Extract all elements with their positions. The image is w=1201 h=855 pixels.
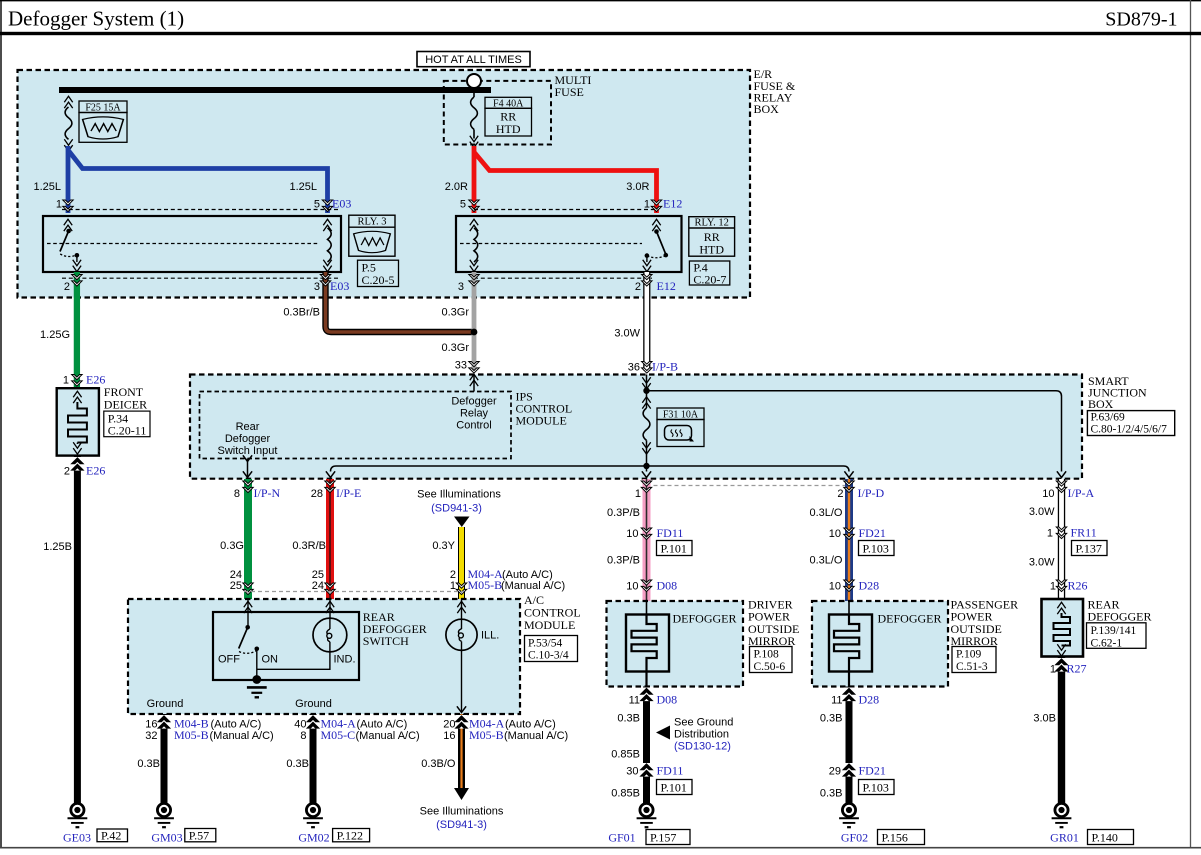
svg-text:DEFOGGER: DEFOGGER [1088, 610, 1152, 624]
svg-text:(SD941-3): (SD941-3) [436, 819, 487, 831]
svg-text:I/P-B: I/P-B [652, 360, 678, 374]
page border bottom [0, 847, 1201, 849]
fuse F25 15A [64, 96, 127, 151]
svg-text:DEFOGGER: DEFOGGER [673, 611, 737, 625]
svg-text:M05-B: M05-B [469, 728, 504, 742]
SMART JUNCTION BOX [190, 374, 1175, 479]
svg-text:30: 30 [626, 766, 638, 778]
PASSENGER POWER OUTSIDE MIRROR box [812, 597, 1018, 686]
svg-text:C.80-1/2/4/5/6/7: C.80-1/2/4/5/6/7 [1091, 424, 1168, 436]
connector M04/M05 pin rows [230, 567, 565, 592]
ground GM03 [151, 803, 215, 844]
svg-text:(SD130-12): (SD130-12) [674, 741, 731, 753]
svg-text:(Auto A/C): (Auto A/C) [211, 718, 262, 730]
svg-text:0.85B: 0.85B [611, 788, 640, 800]
svg-text:1.25L: 1.25L [289, 181, 317, 193]
svg-text:(SD941-3): (SD941-3) [431, 503, 482, 515]
page border left [0, 0, 2, 848]
ground GM02 [298, 803, 369, 844]
svg-text:P.122: P.122 [337, 828, 363, 842]
svg-text:3.0W: 3.0W [1029, 557, 1055, 569]
page border right [1190, 0, 1192, 848]
svg-text:F25 15A: F25 15A [85, 102, 121, 113]
fuse F31 10A [642, 391, 704, 466]
svg-text:R26: R26 [1068, 579, 1088, 593]
svg-text:2: 2 [64, 281, 70, 293]
svg-text:29: 29 [829, 766, 841, 778]
svg-text:MODULE: MODULE [516, 414, 567, 428]
svg-text:0.3L/O: 0.3L/O [809, 507, 842, 519]
svg-text:P.63/69: P.63/69 [1091, 412, 1125, 424]
REAR DEFOGGER SWITCH box [213, 610, 427, 697]
connector E03 dashed lines [62, 210, 340, 279]
svg-text:10: 10 [1042, 488, 1054, 500]
svg-text:Distribution: Distribution [674, 728, 729, 740]
wire 0.3B/O to illuminations [420, 714, 504, 831]
svg-text:C.20-7: C.20-7 [693, 273, 726, 287]
wire 3.0W to rear defogger [1029, 479, 1067, 599]
svg-text:C.20-5: C.20-5 [362, 273, 395, 287]
svg-text:Relay: Relay [460, 408, 489, 420]
SJB pin 10 I/P-A [1042, 486, 1094, 500]
fuse F4 40A [470, 88, 532, 148]
DRIVER POWER OUTSIDE MIRROR box [607, 597, 800, 686]
wire 3.0B rear [1033, 657, 1067, 805]
junction of Br/B and Gr [471, 329, 478, 336]
illumination lamp ILL [446, 619, 499, 712]
svg-text:3.0B: 3.0B [1033, 713, 1056, 725]
svg-text:HTD: HTD [496, 122, 521, 136]
wire 0.3P/B pink [607, 479, 652, 601]
connector D28 lower [831, 693, 879, 707]
wire 0.3B/0.85B driver [611, 687, 652, 805]
page border top [0, 0, 1201, 2]
svg-text:See Illuminations: See Illuminations [420, 806, 504, 818]
svg-text:BOX: BOX [1088, 397, 1114, 411]
svg-text:0.3P/B: 0.3P/B [607, 555, 640, 567]
svg-text:FR11: FR11 [1071, 526, 1097, 540]
defogger relay control line to pin 33 [470, 374, 478, 391]
relay RLY.12 label [689, 217, 735, 257]
A/C module entries [244, 599, 466, 620]
svg-text:P.103: P.103 [863, 541, 889, 555]
bus tap circle [467, 74, 481, 88]
relay 12 switch [652, 219, 660, 231]
svg-text:See Illuminations: See Illuminations [417, 489, 501, 501]
svg-text:(Manual A/C): (Manual A/C) [356, 730, 420, 742]
wire 0.3Y yellow [432, 527, 466, 599]
connector D28 upper [829, 579, 879, 593]
svg-text:0.3R/B: 0.3R/B [292, 540, 326, 552]
svg-text:0.3B: 0.3B [820, 713, 843, 725]
svg-text:E26: E26 [86, 464, 105, 478]
svg-text:FD21: FD21 [859, 764, 886, 778]
connector FD21 lower [829, 763, 894, 795]
wire 0.3B to GM02 [286, 714, 318, 804]
svg-text:0.3G: 0.3G [220, 540, 244, 552]
front deicer F25 load [57, 385, 150, 455]
A/C CONTROL MODULE box [128, 593, 581, 714]
svg-text:FD11: FD11 [657, 526, 684, 540]
svg-text:0.3B/O: 0.3B/O [421, 758, 456, 770]
svg-text:2: 2 [64, 466, 70, 478]
svg-text:IND.: IND. [334, 654, 356, 666]
svg-text:Ground: Ground [147, 698, 184, 710]
svg-text:F31 10A: F31 10A [663, 409, 699, 420]
svg-text:D08: D08 [657, 579, 678, 593]
A/C module exit pin rows [145, 716, 568, 742]
switch contacts [247, 612, 249, 627]
F31 output node [643, 463, 649, 469]
ground GR01 [1050, 803, 1133, 844]
svg-text:0.3B: 0.3B [286, 758, 309, 770]
svg-text:E03: E03 [330, 279, 349, 293]
svg-text:P.108: P.108 [754, 649, 779, 661]
svg-text:SWITCH: SWITCH [363, 634, 409, 648]
svg-text:0.3B: 0.3B [820, 788, 843, 800]
svg-text:HOT AT ALL TIMES: HOT AT ALL TIMES [425, 54, 522, 66]
svg-text:P.101: P.101 [661, 541, 687, 555]
svg-text:Defogger System (1): Defogger System (1) [8, 7, 184, 31]
svg-text:5: 5 [314, 199, 320, 211]
see illuminations feed [417, 489, 501, 528]
svg-text:C.51-3: C.51-3 [956, 661, 988, 673]
svg-text:I/P-E: I/P-E [336, 486, 361, 500]
connector FD21 upper [829, 526, 894, 556]
svg-text:0.3B: 0.3B [137, 758, 160, 770]
branch to pin 1 FD11 [642, 466, 651, 478]
svg-text:0.3Gr: 0.3Gr [441, 307, 469, 319]
svg-text:DEICER: DEICER [104, 398, 147, 412]
svg-text:3: 3 [314, 281, 320, 293]
svg-text:P.57: P.57 [189, 828, 209, 842]
driver mirror defogger element [626, 601, 669, 687]
wire 1.25L blue [33, 146, 351, 213]
branch to pin 2 I/P-D [647, 466, 854, 478]
Ground labels inside A/C module [147, 698, 332, 710]
indicator lamp IND [313, 618, 347, 652]
SJB pin 28 I/P-E [311, 486, 362, 500]
wire 0.3R/B red [292, 479, 335, 599]
svg-text:See Ground: See Ground [674, 716, 733, 728]
svg-text:M05-C: M05-C [321, 728, 356, 742]
svg-text:1: 1 [1047, 528, 1053, 540]
svg-text:(Manual A/C): (Manual A/C) [501, 580, 565, 592]
svg-text:OFF: OFF [218, 654, 240, 666]
connector R26 [1050, 579, 1088, 593]
branch to pin 28 I/P-E [326, 466, 647, 478]
svg-text:I/P-A: I/P-A [1068, 486, 1095, 500]
svg-text:I/P-D: I/P-D [858, 486, 885, 500]
svg-text:GM03: GM03 [151, 831, 182, 845]
svg-text:3.0W: 3.0W [1029, 506, 1055, 518]
svg-text:C.50-6: C.50-6 [754, 661, 786, 673]
connector D08 lower [629, 693, 678, 707]
svg-text:I/P-N: I/P-N [254, 486, 281, 500]
svg-text:BOX: BOX [754, 102, 780, 116]
bus bar [59, 87, 491, 93]
svg-text:D28: D28 [859, 693, 880, 707]
svg-text:C.20-11: C.20-11 [108, 424, 147, 438]
connector E12 dashed lines [474, 210, 658, 279]
svg-text:10: 10 [626, 581, 638, 593]
wire 0.3G green [220, 479, 253, 599]
wire 0.3B passenger [820, 687, 855, 805]
svg-text:Defogger: Defogger [225, 433, 271, 445]
svg-text:GF01: GF01 [608, 831, 635, 845]
svg-text:FD21: FD21 [859, 526, 886, 540]
svg-text:3.0R: 3.0R [626, 181, 649, 193]
svg-text:GE03: GE03 [63, 831, 91, 845]
svg-text:5: 5 [460, 199, 466, 211]
relay RLY.3 page ref [358, 260, 399, 287]
svg-text:0.3P/B: 0.3P/B [607, 507, 640, 519]
svg-text:8: 8 [300, 730, 306, 742]
svg-text:36: 36 [628, 362, 640, 374]
svg-text:RLY. 12: RLY. 12 [695, 218, 729, 229]
relay 12 coil [470, 219, 478, 231]
svg-text:10: 10 [829, 581, 841, 593]
svg-text:(Manual A/C): (Manual A/C) [210, 730, 274, 742]
svg-text:25: 25 [230, 580, 242, 592]
wire 0.3B to GM03 [137, 714, 169, 804]
relay RLY.12 page ref [689, 261, 729, 287]
I/P-B feed into SJB [642, 375, 1066, 478]
svg-text:RLY. 3: RLY. 3 [357, 217, 386, 228]
svg-text:28: 28 [311, 488, 323, 500]
svg-text:P.109: P.109 [956, 649, 981, 661]
ground GE03 [63, 803, 128, 844]
svg-text:SD879-1: SD879-1 [1105, 9, 1177, 31]
svg-text:E26: E26 [86, 373, 105, 387]
wire 1.25B black [43, 456, 83, 804]
svg-text:1: 1 [1050, 581, 1056, 593]
svg-text:1: 1 [63, 375, 69, 387]
svg-text:0.3B: 0.3B [617, 713, 640, 725]
svg-text:P.137: P.137 [1076, 541, 1102, 555]
connector FR11 [1047, 526, 1107, 556]
svg-text:11: 11 [629, 695, 640, 707]
connector FD11 upper [626, 526, 692, 556]
svg-text:C.10-3/4: C.10-3/4 [528, 650, 569, 662]
svg-text:E12: E12 [663, 197, 682, 211]
relay 3 coil [323, 219, 331, 231]
svg-text:8: 8 [234, 488, 240, 500]
svg-text:24: 24 [312, 580, 324, 592]
SJB pin 2 I/P-D [837, 486, 884, 500]
REAR DEFOGGER box [1042, 597, 1152, 656]
svg-text:1: 1 [56, 199, 62, 211]
relay 3 switch [64, 219, 72, 231]
E/R fuse and relay box [18, 67, 796, 298]
wire 1.25G green [40, 272, 105, 388]
svg-text:E03: E03 [332, 197, 351, 211]
svg-text:(Manual A/C): (Manual A/C) [504, 730, 568, 742]
svg-text:DEFOGGER: DEFOGGER [878, 611, 942, 625]
svg-text:1.25G: 1.25G [40, 329, 70, 341]
header rule [0, 32, 1201, 35]
switch internal ground [247, 686, 267, 689]
svg-text:3: 3 [458, 281, 464, 293]
svg-text:Ground: Ground [295, 698, 332, 710]
svg-text:GR01: GR01 [1050, 831, 1079, 845]
svg-text:0.3Gr: 0.3Gr [441, 342, 469, 354]
svg-text:10: 10 [829, 528, 841, 540]
svg-text:MODULE: MODULE [524, 618, 575, 632]
svg-text:GM02: GM02 [298, 831, 329, 845]
svg-text:ILL.: ILL. [481, 630, 499, 642]
svg-text:P.101: P.101 [661, 780, 687, 794]
ground GF02 [839, 803, 924, 844]
svg-text:(Auto A/C): (Auto A/C) [505, 718, 556, 730]
svg-text:Defogger: Defogger [451, 396, 497, 408]
HOT AT ALL TIMES label [417, 52, 530, 67]
svg-text:40: 40 [294, 718, 306, 730]
svg-text:16: 16 [145, 718, 157, 730]
svg-text:Control: Control [456, 420, 491, 432]
connector R27 [1050, 662, 1087, 676]
connector dashed line pins 1-2 [647, 485, 850, 487]
svg-text:D08: D08 [657, 693, 678, 707]
relay RLY.12 box [456, 216, 682, 272]
svg-text:FD11: FD11 [657, 764, 684, 778]
svg-text:ON: ON [262, 654, 279, 666]
svg-text:1.25B: 1.25B [43, 541, 72, 553]
svg-text:M05-B: M05-B [468, 578, 503, 592]
wire 3.0W white [614, 272, 678, 374]
svg-text:Switch Input: Switch Input [218, 445, 278, 457]
relay 3 pin labels [64, 279, 349, 293]
rear defogger switch input line to pin 8 [243, 455, 252, 478]
ground GF01 [608, 803, 690, 844]
svg-text:(Auto A/C): (Auto A/C) [357, 718, 408, 730]
svg-text:R27: R27 [1067, 662, 1087, 676]
svg-text:0.3L/O: 0.3L/O [809, 555, 842, 567]
svg-text:33: 33 [455, 360, 467, 372]
relay 12 pin labels [458, 279, 676, 293]
svg-text:10: 10 [626, 528, 638, 540]
svg-text:1: 1 [1050, 664, 1056, 676]
svg-text:P.139/141: P.139/141 [1091, 625, 1137, 637]
svg-text:P.53/54: P.53/54 [528, 637, 562, 649]
svg-text:FUSE: FUSE [555, 85, 584, 99]
svg-text:0.85B: 0.85B [611, 749, 640, 761]
svg-text:Rear: Rear [236, 421, 260, 433]
svg-text:P.42: P.42 [101, 829, 121, 843]
svg-text:20: 20 [443, 718, 455, 730]
svg-text:32: 32 [145, 730, 157, 742]
wire 0.3Br/B brown [283, 272, 474, 332]
svg-text:1.25L: 1.25L [33, 181, 61, 193]
svg-text:C.62-1: C.62-1 [1091, 637, 1123, 649]
svg-text:2: 2 [837, 488, 843, 500]
svg-text:2: 2 [635, 281, 641, 293]
connector D08 upper [626, 579, 677, 593]
SJB pin 1 [635, 488, 641, 500]
svg-text:P.103: P.103 [863, 780, 889, 794]
svg-text:0.3Y: 0.3Y [432, 540, 455, 552]
svg-text:P.156: P.156 [882, 830, 908, 844]
connector FD11 lower [626, 763, 692, 795]
svg-text:1: 1 [644, 199, 650, 211]
svg-text:2.0R: 2.0R [445, 181, 468, 193]
svg-text:GF02: GF02 [841, 831, 868, 845]
MULTI FUSE box [444, 73, 592, 145]
svg-text:11: 11 [831, 695, 842, 707]
SJB pin 8 I/P-N [234, 486, 281, 500]
passenger mirror defogger element [829, 601, 872, 687]
relay RLY.3 box [43, 216, 341, 272]
svg-text:0.3Br/B: 0.3Br/B [283, 307, 320, 319]
lamp to switch join [257, 652, 330, 669]
svg-text:P.140: P.140 [1092, 830, 1118, 844]
svg-text:E12: E12 [657, 279, 676, 293]
see ground distribution tap [643, 716, 733, 752]
deicer pin 2 E26 [64, 464, 105, 478]
svg-text:HTD: HTD [699, 242, 724, 256]
svg-text:16: 16 [443, 730, 455, 742]
svg-text:1: 1 [635, 488, 641, 500]
wire 2.0R / 3.0R red [445, 146, 683, 213]
svg-text:D28: D28 [859, 579, 880, 593]
svg-text:1: 1 [450, 580, 456, 592]
wire 0.3L/O blue-orange [809, 479, 854, 601]
svg-text:3.0W: 3.0W [614, 328, 640, 340]
IPS CONTROL MODULE box [200, 390, 573, 459]
relay RLY.3 label [349, 215, 395, 256]
svg-text:M05-B: M05-B [174, 728, 209, 742]
svg-text:P.157: P.157 [650, 830, 676, 844]
wire 0.3Gr gray [441, 272, 479, 373]
